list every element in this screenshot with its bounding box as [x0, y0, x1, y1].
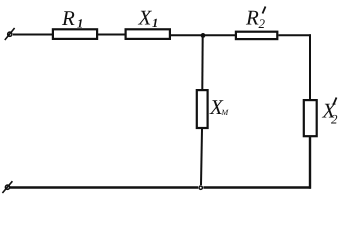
svg-text:2: 2	[259, 16, 266, 31]
wire X1 to node	[171, 34, 203, 36]
svg-text:1: 1	[77, 17, 83, 31]
wire bottom right segment (node B to bottom-right corner)	[203, 186, 311, 188]
wire bottom left segment (terminal B to node B)	[10, 186, 198, 188]
terminal B (bottom-left, circle with slash)	[2, 181, 12, 193]
node B (open circle on bottom wire)	[199, 186, 202, 189]
wire X2' to bottom-right corner	[309, 137, 311, 189]
wire terminal A to R1	[13, 34, 52, 36]
node junction (filled dot)	[201, 33, 206, 38]
svg-text:R: R	[245, 6, 259, 30]
svg-text:1: 1	[152, 16, 158, 30]
wire R2' to top-right corner	[279, 34, 312, 36]
svg-text:M: M	[221, 108, 230, 117]
reactance X2'	[304, 98, 338, 137]
resistor R1	[53, 6, 97, 39]
resistor R2'	[236, 6, 277, 40]
reactance Xm	[197, 90, 230, 128]
svg-text:2: 2	[331, 112, 338, 127]
terminal A (top-left input, circle with slash)	[5, 28, 15, 40]
reactance X1	[126, 6, 170, 39]
svg-text:R: R	[61, 6, 75, 30]
svg-text:X: X	[138, 6, 153, 30]
wire Xm to bottom node	[201, 129, 202, 185]
wire magnetizing branch (node down to Xm)	[201, 35, 203, 89]
wire node to R2'	[203, 34, 235, 36]
wire right vertical (corner down to X2')	[309, 34, 311, 99]
wire R1 to X1	[98, 34, 125, 36]
